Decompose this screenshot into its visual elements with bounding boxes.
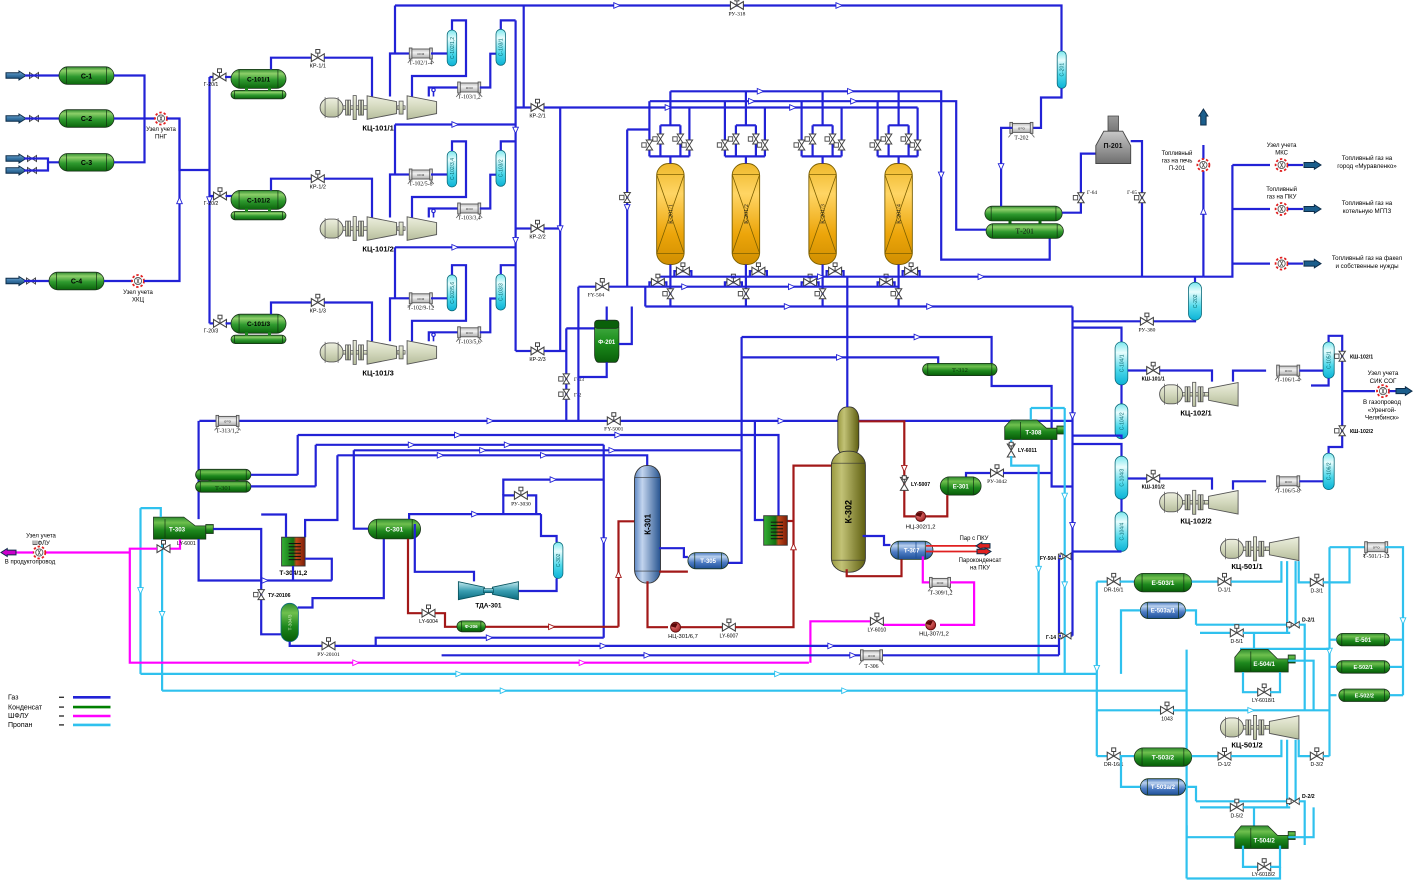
svg-text:Газ: Газ [8,695,18,702]
valve DR-16/1 second [1107,748,1120,760]
wire valve loop К-201/4 [889,124,909,126]
wire trunk to С-104/4 bottom [1073,550,1122,552]
compressor КЦ-501/2 [1220,715,1299,739]
svg-text:П-201: П-201 [1169,166,1186,172]
svg-text:С-101/3: С-101/3 [247,321,271,328]
valve FY-5001 [607,413,620,425]
label КР-1/2 [310,185,326,191]
wire Т-103 to С-103 [480,175,496,209]
svg-text:o=o: o=o [466,206,474,211]
separator С-106/2 [1323,453,1334,490]
label Г-20/2 [204,201,219,207]
svg-text:Г-20/3: Г-20/3 [204,328,219,334]
bottom valve К-201/3 [815,289,826,299]
turboexpander ТДА-301 [458,582,518,600]
wire С-202 bottom to РУ-380 [1153,320,1195,321]
label FY-5001 [604,427,624,433]
label 1043 [1161,716,1173,722]
wire L5 left drop to Т-304 [305,455,337,537]
meter fuel gas to П-201 [1197,159,1209,171]
svg-text:o=o: o=o [466,330,474,335]
valve ТУ-20106 line [261,566,281,634]
valve Г-2 [559,389,570,399]
svg-text:D-3/2: D-3/2 [1310,762,1323,768]
label КР-2/2 [529,235,545,241]
wire ШФЛУ from Т-307 via Т-309 [923,556,930,582]
svg-text:Узел учета: Узел учета [1368,370,1399,377]
separator С-103/1 [496,29,506,65]
arrow В газопровод [1396,387,1412,396]
svg-text:Е-501: Е-501 [1355,638,1372,644]
svg-text:С-102/1,2: С-102/1,2 [450,37,456,59]
svg-text:o=o: o=o [417,51,425,56]
svg-text:Узел учета: Узел учета [123,290,153,296]
separator С-102 train 2 [447,151,457,187]
svg-text:Топливный газ на: Топливный газ на [1342,155,1393,162]
svg-text:С-104/4: С-104/4 [1119,523,1125,541]
svg-text:Челябинск»: Челябинск» [1365,415,1400,422]
receiver Е-501 [1337,633,1390,646]
svg-text:Т-307: Т-307 [904,549,920,555]
svg-text:ХКЦ: ХКЦ [132,298,144,304]
label Узел учета МКС [1267,143,1297,157]
wire D-5/1 line [1200,632,1230,634]
wire lower header under Т-304 [199,539,332,583]
label КР-2/3 [529,357,545,363]
vent stem on stage 2 [433,336,435,341]
inlet valve a К-201/3 [805,134,816,144]
wire РУ-20101 to К-301 area [335,635,604,646]
wire Т-106/5-8 to С-106/2 [1299,480,1323,482]
wire РУ-380 to trunk [1073,320,1141,322]
exchanger Т-313/1,2 [215,415,241,430]
wire propane riser right [1062,408,1068,674]
label D-5/1 [1230,639,1243,645]
wire propane long line A [141,671,1097,677]
column К-302 body [831,451,865,572]
label Топливный газ на печь П-201 [1162,150,1193,172]
regen valve К-201/1 [676,263,689,275]
wire to Г-20/2 [210,195,215,197]
cooler Т-202 [1008,122,1034,137]
svg-text:D-5/1: D-5/1 [1230,639,1243,645]
vessel Т-301 upper [196,469,251,480]
chiller Т-303 [154,517,206,539]
adsorber К-201/3 [809,164,837,265]
wire to Е-502/2 [1390,694,1403,696]
valve outer left К-201/4 [870,140,881,150]
regen valve К-201/3 [829,263,842,275]
label Узел учета ШФЛУ [26,534,56,548]
svg-text:Топливный: Топливный [1266,186,1297,193]
wire D-2/1 line [1196,624,1288,626]
inlet valve a К-201/4 [881,134,892,144]
wire Ф-201 bottom drain [578,362,606,377]
wire Т-304/3 top hook [298,524,384,608]
wire into Т-312 bottom [742,355,939,364]
label D-1/2 [1218,762,1231,768]
label LY-6007 [720,634,739,640]
svg-text:Е-503/1: Е-503/1 [1152,580,1175,587]
separator С-301 [368,519,420,539]
reflux drum Е-301 [940,477,981,495]
separator C-3 [59,154,114,172]
wire manifold M2 to Т-201 lower left [650,98,986,229]
wire LY-6010 to ШФЛУ main [810,621,870,662]
svg-text:КШ-102/2: КШ-102/2 [1350,429,1373,435]
svg-text:Т-503а/2: Т-503а/2 [1151,785,1176,791]
wire to ПКУ meter [1232,208,1270,210]
drum Ф-206 [457,621,486,632]
svg-text:КШ-101/2: КШ-101/2 [1142,485,1165,491]
legend label ШФЛУ [8,713,29,720]
inlet valve b К-201/4 [901,134,912,144]
valve LY-6011 [1007,442,1015,457]
svg-text:С-301: С-301 [386,526,404,533]
wire Т-504/2 bottom LY-6018/2 [1243,846,1258,867]
svg-text:С-104/3: С-104/3 [1119,469,1125,487]
drum Ф-201 [595,320,619,362]
svg-text:DR-16/1: DR-16/1 [1104,588,1123,594]
valve FY-504 right [1058,553,1071,559]
wire reflux Е-301 / РУ-3042 [966,473,991,477]
label ТДА-301 [475,603,502,610]
wire С-101/2 to КР-1/2 [271,179,312,191]
wire bottom riser К-201/3 [821,265,823,307]
wire 1043 line [1097,709,1161,711]
separator С-103/3 [496,274,506,310]
label Г-13 [574,377,584,383]
wire С-101/1 to КР-1/1 [271,58,312,70]
label Узел учета СИК СОГ [1368,370,1399,385]
bottom valve К-201/1 [663,289,674,299]
wire bus A jog К-201/3 [827,271,844,277]
wire suction КШ-101/2 [1128,477,1147,479]
separator C-4 [49,272,104,290]
adsorber К-201/1 [657,164,685,265]
wire main line L5 to К-301 feed [337,453,647,466]
wire to Г-20/1 [210,76,215,78]
wire С-102 to stage 2 [412,141,466,217]
svg-text:o=o: o=o [1018,125,1026,130]
svg-text:LY-6018/1: LY-6018/1 [1252,698,1275,704]
wire manifold M3 suction header [544,105,918,111]
valve КР-1/2 [311,171,324,183]
valve Г-65 [1134,193,1145,203]
wire К-301 overhead to Т-305 [659,548,688,557]
wire to МКС meter [1232,164,1270,166]
svg-text:Т-202: Т-202 [1014,135,1028,141]
svg-text:Г-64: Г-64 [1087,190,1097,196]
svg-text:ПНГ: ПНГ [155,135,168,141]
label Т-301 [215,485,231,492]
wire ШФЛУ main run [130,553,809,666]
svg-text:КШ-101/1: КШ-101/1 [1142,377,1165,383]
wire DR-16/1 line 1 [1097,580,1108,582]
svg-text:КЦ-501/1: КЦ-501/1 [1231,562,1262,571]
valve КР-2/1 [531,99,544,111]
wire valve loop К-201/3 [813,124,833,126]
legend line Конденсат [73,706,111,709]
separator С-101/1 lower drum [231,90,286,98]
meter Узел учета СИК СОГ [1377,385,1389,397]
wire trunk to Г-13/Г-2 [565,328,567,421]
wire outer leg left К-201/4 [876,151,878,157]
wire pump to LY-6007 [681,626,722,628]
wire С-101/3 to КР-1/3 [271,303,312,315]
wire РУ-318 drop to КР-2/1 line [523,6,525,108]
economizer Е-503а/1 [1140,602,1185,619]
wire L4 left drop to С-301 [354,450,368,528]
regen valve К-201/2 [752,263,765,275]
wire LY-6007 to К-302 via exchanger riser [735,466,833,628]
wire fuel gas users header [1203,165,1232,277]
wire КЦ-501/2 interstage returns [1286,740,1288,808]
wire stage2 discharge [429,88,459,97]
svg-text:С-105/1: С-105/1 [1326,351,1332,369]
valve D-2/1 [1287,622,1300,628]
wire РУ-3030 riser to К-301 line [503,477,603,496]
valve LY-6010 [870,613,883,625]
svg-text:o=o: o=o [1285,479,1293,484]
plate exchanger Т-304/1,2 [282,537,306,566]
cooler Т-102 train 3 [408,293,434,308]
wire bus B jog К-201/1 [649,282,666,286]
wire propane to Т-504/2 from trunk [1187,825,1235,837]
label Г-2 [574,393,582,399]
condenser Т-312 [923,363,997,375]
valve Г-20/2 [214,188,227,200]
svg-text:ТДА-301: ТДА-301 [475,603,502,610]
wire propane trunk x1186 [1184,650,1190,879]
wire Е-504/1 feed riser [1253,633,1255,650]
wire main line L2 [298,432,779,516]
wire Т-504/2 feed riser [1253,807,1255,826]
label LY-6018/1 [1252,698,1275,704]
wire to Т-102 [399,297,411,299]
wire bus A jog К-201/2 [750,271,767,277]
separator C-2 [59,110,114,128]
svg-text:НЦ-302/1,2: НЦ-302/1,2 [906,525,936,531]
svg-text:C-2: C-2 [81,116,92,123]
economizer Е-503/1 [1134,573,1192,592]
label РУ-380 [1138,328,1155,334]
svg-text:Ф-206: Ф-206 [465,624,478,629]
wire L3 drop [315,445,317,487]
label Т-306 [864,664,878,670]
svg-text:КЦ-101/3: КЦ-101/3 [362,368,393,377]
svg-text:К-201/1: К-201/1 [668,204,674,224]
separator С-104/1 [1115,342,1128,385]
vessel Т-201 lower shell [986,224,1063,239]
compressor КЦ-101/1 [320,96,437,120]
svg-text:С-202: С-202 [1193,294,1199,308]
label ТУ-20106 [268,593,291,599]
svg-text:o=o: o=o [417,296,425,301]
label Г-65 [1127,190,1137,196]
wire С-105/1 bottom hook [1311,378,1329,385]
label КР-1/3 [310,309,326,315]
inlet arrow to C-4 [6,277,26,286]
wire МКС meter to arrow [1288,164,1303,166]
svg-text:Т-503/2: Т-503/2 [1152,755,1175,762]
label КШ-102/1 [1350,355,1373,361]
label Г-20/3 [204,328,219,334]
svg-text:C-3: C-3 [81,160,92,167]
wire Т-304/3 bottom РУ-20101 [290,642,322,646]
valve РУ-380 [1140,313,1153,325]
svg-text:КР-2/2: КР-2/2 [529,235,545,241]
svg-text:С-201: С-201 [1060,63,1066,77]
label Топливный газ на котельную МГПЗ [1342,200,1393,215]
svg-text:С-103/2: С-103/2 [499,159,505,177]
svg-text:Узел учета: Узел учета [1267,143,1297,149]
svg-text:o=o: o=o [224,418,232,423]
svg-text:Т-301: Т-301 [215,485,231,492]
wire to С-302 top [541,514,557,542]
inlet arrow to C-1 [6,71,26,80]
separator С-302 [553,542,563,578]
compressor КЦ-101/3 [320,340,437,364]
wire outer leg right К-201/1 [688,151,690,157]
separator С-101/2 [231,190,286,209]
wire С-201 to Т-202 [1031,88,1062,128]
wire bus B jog К-201/3 [802,282,819,286]
svg-text:D-1/1: D-1/1 [1218,588,1231,594]
wire to С-202 top [1194,277,1196,283]
wire Т-102 to С-102 [431,52,447,54]
wire Т-309 loop [940,582,974,625]
wire C-1 outlet [114,76,145,119]
inlet valve a К-201/1 [653,134,664,144]
compressor КЦ-101/2 [320,217,437,241]
label LY-6011 [1018,448,1037,454]
wire Т-102 to С-102 [431,297,447,299]
wire М1 riser К-201/1 [669,91,671,125]
label D-2/1 [1302,618,1315,624]
valve КШ-102/2 [1335,426,1346,436]
wire right end vertical FY-504 Г-14 [1058,556,1060,655]
meter Узел учета ШФЛУ [33,547,45,559]
wire РУ-318 drop to train 1 [394,6,396,54]
wire inlet C-2 [25,117,59,119]
pump НЦ-302/1,2 [916,511,926,521]
label НЦ-307/1,2 [919,632,949,638]
wire С-103/2 outlet [501,141,516,150]
svg-text:Т-106/5-8: Т-106/5-8 [1276,488,1300,494]
svg-text:С-104/2: С-104/2 [1119,412,1125,430]
wire К-302 reflux red via НЦ-302 [859,421,915,516]
svg-text:o=o: o=o [1373,545,1381,550]
wire L2 drop [297,435,299,475]
label D-1/1 [1218,588,1231,594]
svg-text:LY-6011: LY-6011 [1018,448,1037,454]
wire steam from ПКУ [926,545,976,547]
furnace П-201 [1096,116,1131,164]
separator C-1 [59,67,114,85]
wire outer leg right К-201/4 [916,151,918,157]
label КР-2/1 [529,114,545,120]
label LY-5007 [911,482,930,488]
svg-text:Пароконденсат: Пароконденсат [959,558,1002,564]
wire ШФЛУ from Т-303 via LY-6001 [170,539,180,549]
svg-text:«Уренгой-: «Уренгой- [1368,407,1396,414]
svg-text:Топливный: Топливный [1162,150,1193,157]
meter Узел учета МКС [1276,159,1288,171]
valve DR-16/1 first [1107,573,1120,585]
wire Е-503/1 to D-1/1 [1192,580,1218,582]
svg-text:o=o: o=o [937,580,945,585]
valve Г-14 [1058,633,1071,639]
regen valve К-201/4 [905,263,918,275]
compressor КЦ-501/1 [1220,537,1299,561]
wire Т-106 to С-105/1 [1299,370,1323,372]
wire КР-1/1 to stage 1 [324,58,372,97]
wire to flare meter [1232,263,1270,265]
wire Ф-201 right to header [619,307,632,345]
valve D-2/2 [1287,798,1300,804]
plate exchanger К-301/К-302 feed [764,516,788,546]
arrow fuel gas to city [1304,161,1321,170]
wires С-104 feeds train 2 [1073,444,1122,456]
svg-text:Т-102/1-4: Т-102/1-4 [409,61,433,67]
arrow fuel gas to flare [1304,259,1321,268]
label Т-313/1,2 [216,429,239,435]
cool valve К-201/4 [880,274,893,286]
svg-text:Т-102/5-8: Т-102/5-8 [409,182,433,188]
wire ШФЛУ to product line [46,551,130,553]
svg-text:С-102/3,4: С-102/3,4 [450,158,456,180]
wire Т-312 west feed [742,336,848,338]
label КШ-101/2 [1142,485,1165,491]
wire РУ-3030 right leg [527,495,536,514]
valve outer left К-201/2 [717,140,728,150]
svg-text:С-101/1: С-101/1 [247,76,271,83]
label КШ-101/1 [1142,377,1165,383]
valve D-1/1 [1218,573,1231,585]
wire valve loop К-201/1 [660,124,680,126]
svg-text:и собственные нужды: и собственные нужды [1335,263,1399,270]
label LY-6001 [177,541,196,547]
wire D-2/2 line [1196,800,1288,802]
valve outer left К-201/1 [642,140,653,150]
arrow fuel gas to boiler [1304,205,1321,214]
svg-text:НЦ-307/1,2: НЦ-307/1,2 [919,632,949,638]
wire С-103/1 outlet [501,20,516,29]
valve КШ-102/1 [1335,351,1346,361]
svg-text:Е-503а/1: Е-503а/1 [1151,609,1176,615]
svg-text:Г-20/2: Г-20/2 [204,201,219,207]
svg-text:РУ-318: РУ-318 [728,12,745,18]
wire Г-20/1 to С-101/1 [225,76,231,78]
wire propane inlet to Т-303 [141,508,161,517]
wire РУ-318 recycle header [395,3,1062,51]
wire Т-504/2 vapor return [1288,807,1313,837]
svg-text:Е-502/2: Е-502/2 [1355,693,1374,699]
valve outer right К-201/1 [682,140,693,150]
wire Т-304 top-left connector [261,515,286,538]
wire К-302 overhead [846,277,848,407]
label Т-309/1,2 [929,591,952,597]
svg-text:К-201/2: К-201/2 [744,204,750,224]
wire long gas line y656 with Т-306 [442,653,1059,659]
legend label Пропан [8,722,33,729]
wire stage1 discharge [390,175,399,218]
svg-text:FY-504: FY-504 [1040,556,1056,562]
svg-text:LY-6010: LY-6010 [868,628,887,634]
svg-text:Т-304/3: Т-304/3 [287,614,292,630]
wire М1 riser К-201/4 [897,91,899,125]
